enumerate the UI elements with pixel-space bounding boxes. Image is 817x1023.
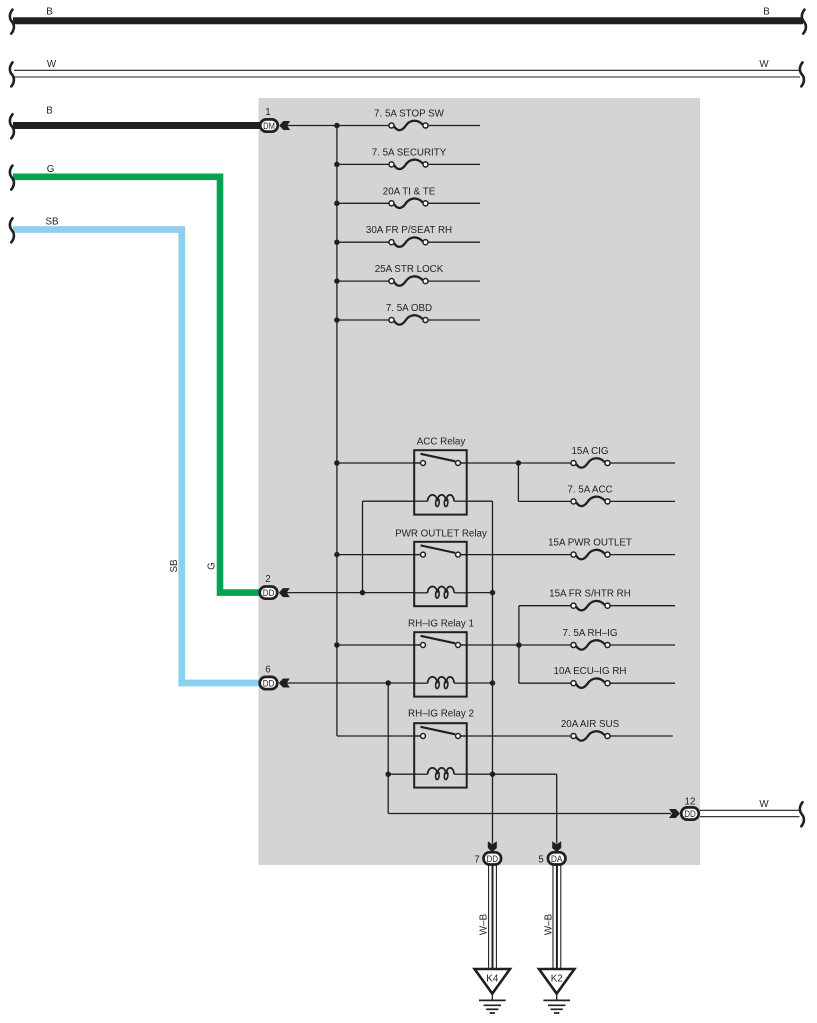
svg-text:7. 5A ACC: 7. 5A ACC [567, 484, 612, 495]
svg-text:W: W [759, 799, 769, 810]
svg-text:W–B: W–B [543, 913, 554, 935]
svg-text:20A AIR SUS: 20A AIR SUS [561, 719, 620, 730]
svg-text:K4: K4 [486, 974, 499, 985]
svg-text:5: 5 [538, 854, 544, 865]
svg-text:30A FR P/SEAT RH: 30A FR P/SEAT RH [366, 225, 452, 236]
svg-text:DD: DD [684, 809, 696, 820]
svg-text:G: G [47, 164, 55, 175]
svg-text:25A STR LOCK: 25A STR LOCK [375, 264, 444, 275]
svg-text:7. 5A STOP SW: 7. 5A STOP SW [374, 109, 445, 120]
svg-text:ACC Relay: ACC Relay [417, 437, 466, 448]
svg-text:SB: SB [169, 559, 180, 573]
svg-text:RH–IG Relay 2: RH–IG Relay 2 [408, 709, 474, 720]
svg-text:G: G [207, 562, 218, 570]
svg-text:15A PWR OUTLET: 15A PWR OUTLET [548, 538, 632, 549]
svg-text:B: B [46, 7, 53, 18]
svg-text:SB: SB [45, 217, 59, 228]
svg-text:20A TI & TE: 20A TI & TE [383, 186, 436, 197]
svg-text:K2: K2 [551, 974, 563, 985]
svg-text:DD: DD [263, 588, 275, 599]
svg-text:DD: DD [487, 854, 499, 865]
svg-text:RH–IG Relay 1: RH–IG Relay 1 [408, 619, 474, 630]
svg-text:15A FR S/HTR RH: 15A FR S/HTR RH [549, 589, 631, 600]
svg-text:DD: DD [263, 679, 275, 690]
svg-text:7: 7 [474, 854, 479, 865]
svg-text:2: 2 [265, 574, 270, 585]
svg-text:7. 5A SECURITY: 7. 5A SECURITY [372, 147, 447, 158]
svg-text:1: 1 [265, 107, 270, 118]
svg-text:B: B [46, 106, 53, 117]
svg-text:DM: DM [263, 121, 275, 132]
svg-text:10A ECU–IG RH: 10A ECU–IG RH [554, 666, 627, 677]
svg-text:6: 6 [265, 665, 271, 676]
svg-text:7. 5A RH–IG: 7. 5A RH–IG [563, 628, 618, 639]
svg-text:15A CIG: 15A CIG [571, 446, 608, 457]
svg-text:DA: DA [551, 854, 563, 865]
svg-text:W: W [47, 59, 57, 70]
svg-text:7. 5A OBD: 7. 5A OBD [386, 303, 432, 314]
svg-text:PWR OUTLET Relay: PWR OUTLET Relay [395, 528, 487, 539]
svg-text:W: W [759, 59, 769, 70]
svg-text:B: B [763, 7, 770, 18]
svg-text:W–B: W–B [479, 913, 490, 935]
svg-text:12: 12 [685, 797, 696, 808]
